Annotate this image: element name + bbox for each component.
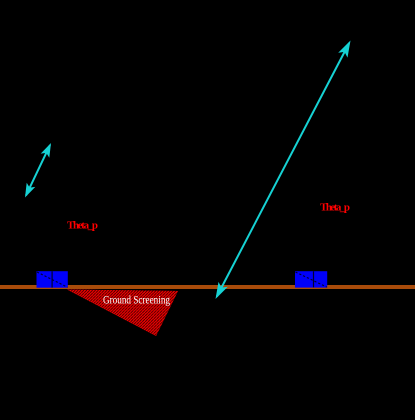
incident ray double arrow (216, 41, 351, 300)
svg-text:Theta_p: Theta_p (67, 220, 98, 232)
antenna box left (37, 271, 68, 288)
ground screening hatch texture (67, 290, 178, 337)
ground screening hatched region (67, 290, 178, 337)
polarization double arrow (25, 143, 51, 198)
ground line (0, 285, 415, 289)
svg-text:Theta_p: Theta_p (320, 202, 350, 214)
svg-text:Ground Screening: Ground Screening (103, 293, 170, 307)
antenna box right (295, 271, 327, 287)
